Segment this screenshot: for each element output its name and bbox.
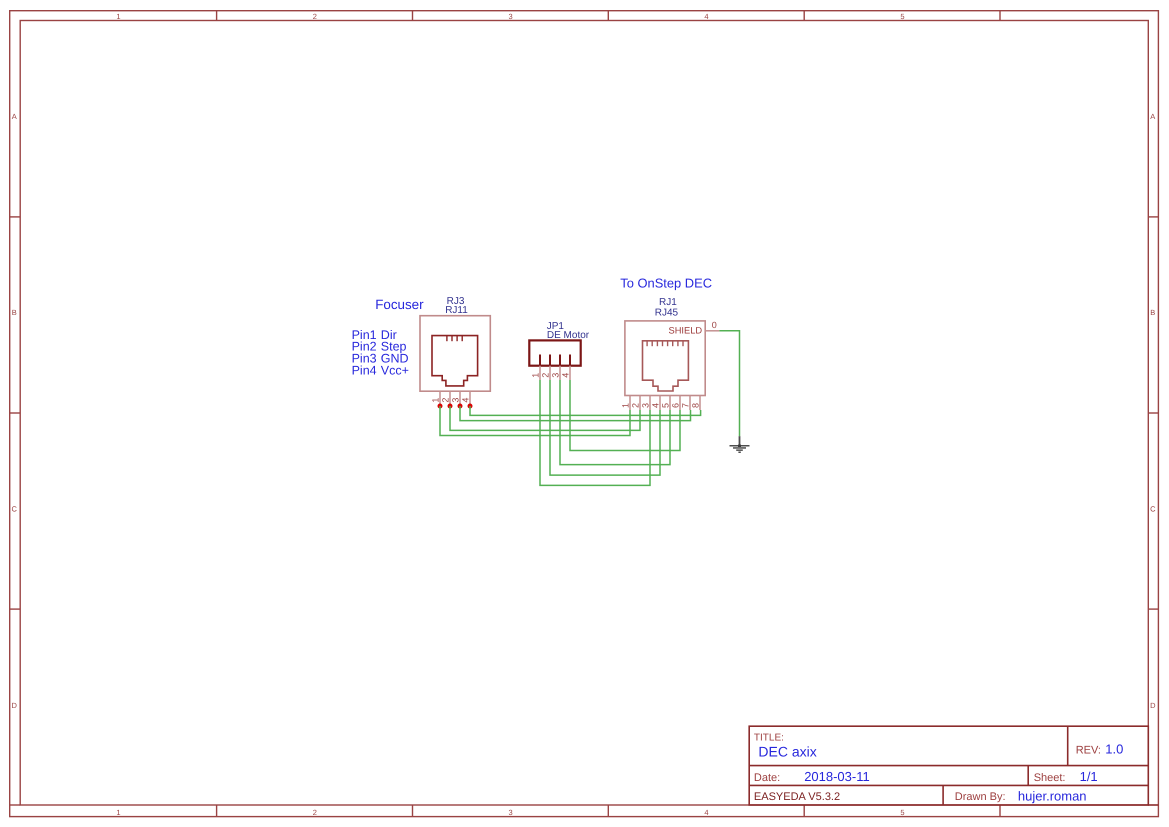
ground <box>730 436 750 453</box>
svg-text:Date:: Date: <box>754 772 780 784</box>
svg-text:Drawn By:: Drawn By: <box>955 791 1006 803</box>
annotation pin function list <box>352 328 409 378</box>
svg-text:4: 4 <box>561 373 571 378</box>
title block texts <box>754 732 1123 803</box>
svg-text:4: 4 <box>651 403 661 408</box>
svg-text:3: 3 <box>509 12 513 21</box>
header JP1 pin numbers <box>531 373 571 378</box>
wire shield pin 0 to ground <box>719 331 739 436</box>
svg-text:4: 4 <box>704 12 708 21</box>
svg-text:3: 3 <box>641 403 651 408</box>
svg-text:2018-03-11: 2018-03-11 <box>804 769 870 784</box>
svg-text:8: 8 <box>691 403 701 408</box>
svg-text:4: 4 <box>704 808 708 817</box>
wire JP1.1 to RJ1.3 <box>540 380 650 485</box>
svg-text:2: 2 <box>631 403 641 408</box>
svg-text:To OnStep DEC: To OnStep DEC <box>620 276 712 291</box>
svg-text:1: 1 <box>116 12 120 21</box>
svg-text:D: D <box>11 701 17 710</box>
connector RJ3 jack contact ticks <box>447 336 462 342</box>
connector RJ3 pin numbers <box>431 398 471 403</box>
connector RJ3 jack shape <box>432 336 478 386</box>
header JP1 body <box>529 340 580 365</box>
svg-text:3: 3 <box>551 373 561 378</box>
svg-text:RJ1: RJ1 <box>659 297 677 308</box>
svg-text:2: 2 <box>541 373 551 378</box>
svg-text:B: B <box>12 308 17 317</box>
svg-text:RJ11: RJ11 <box>445 305 468 316</box>
title block <box>749 726 1158 805</box>
wire JP1.4 to RJ1.6 <box>570 380 680 451</box>
connector RJ1 jack contact ticks <box>647 341 683 346</box>
svg-text:2: 2 <box>313 12 317 21</box>
svg-text:1: 1 <box>116 808 120 817</box>
junction dot RJ3 pin4 <box>468 404 473 409</box>
svg-text:A: A <box>1150 112 1155 121</box>
svg-text:0: 0 <box>712 320 717 330</box>
connector RJ1 shield pin 0 <box>705 330 719 332</box>
svg-text:4: 4 <box>461 398 471 403</box>
wire RJ3.3 to RJ1.7 <box>460 406 691 421</box>
svg-text:B: B <box>1150 308 1155 317</box>
svg-text:DEC axix: DEC axix <box>758 744 816 760</box>
svg-text:RJ45: RJ45 <box>655 308 679 319</box>
svg-text:5: 5 <box>900 12 904 21</box>
svg-text:C: C <box>11 505 17 514</box>
svg-text:C: C <box>1150 505 1156 514</box>
junction dot RJ3 pin1 <box>438 404 443 409</box>
svg-text:5: 5 <box>661 403 671 408</box>
connector RJ1 pins 1-8 <box>630 396 700 411</box>
svg-text:Pin4: Pin4 <box>352 364 377 378</box>
svg-text:Vcc+: Vcc+ <box>381 364 409 378</box>
svg-text:2: 2 <box>313 808 317 817</box>
svg-text:Sheet:: Sheet: <box>1034 772 1066 784</box>
connector RJ1 body outline <box>625 321 705 396</box>
connector RJ1 jack shape <box>643 341 689 391</box>
wire RJ3.4 to RJ1.8 <box>470 406 701 415</box>
svg-text:3: 3 <box>509 808 513 817</box>
wire JP1.2 to RJ1.4 <box>550 380 660 475</box>
wire RJ3.1 to RJ1.1 <box>440 406 630 436</box>
header JP1 pins 1-4 <box>540 366 570 380</box>
connector RJ3 body outline <box>420 316 490 392</box>
svg-text:1/1: 1/1 <box>1080 769 1098 784</box>
junction dot RJ3 pin2 <box>448 404 453 409</box>
svg-text:2: 2 <box>441 398 451 403</box>
connector RJ3 pins 1-4 <box>440 391 470 404</box>
svg-text:SHIELD: SHIELD <box>669 326 703 336</box>
wire RJ3.2 to RJ1.2 <box>450 406 640 430</box>
svg-text:Focuser: Focuser <box>375 297 424 312</box>
svg-text:5: 5 <box>900 808 904 817</box>
svg-text:3: 3 <box>451 398 461 403</box>
svg-text:7: 7 <box>681 403 691 408</box>
svg-text:TITLE:: TITLE: <box>754 732 784 743</box>
wire JP1.3 to RJ1.5 <box>560 380 670 465</box>
svg-text:REV:: REV: <box>1076 744 1101 756</box>
svg-text:A: A <box>12 112 17 121</box>
svg-text:1: 1 <box>431 398 441 403</box>
svg-text:1.0: 1.0 <box>1105 741 1123 756</box>
svg-text:EASYEDA V5.3.2: EASYEDA V5.3.2 <box>754 791 840 803</box>
svg-text:hujer.roman: hujer.roman <box>1018 789 1087 804</box>
svg-text:1: 1 <box>621 403 631 408</box>
connector RJ1 pin numbers <box>621 403 701 408</box>
junction dot RJ3 pin3 <box>458 404 463 409</box>
header JP1 pin stubs <box>540 355 570 366</box>
svg-text:D: D <box>1150 701 1156 710</box>
svg-text:6: 6 <box>671 403 681 408</box>
svg-text:1: 1 <box>531 373 541 378</box>
